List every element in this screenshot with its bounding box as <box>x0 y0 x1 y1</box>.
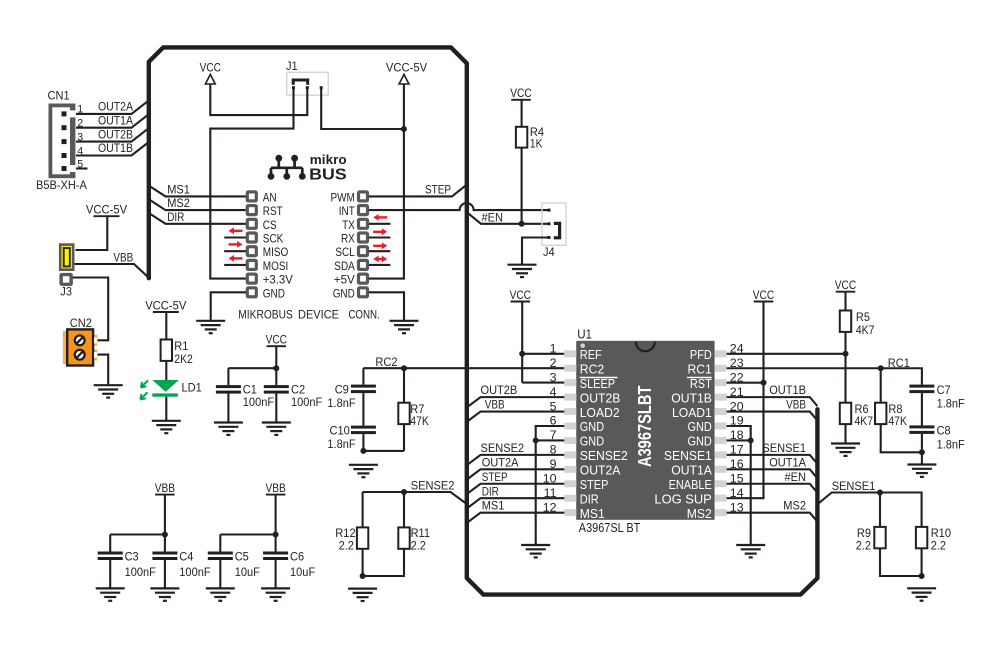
svg-text:LD1: LD1 <box>182 381 203 395</box>
svg-text:4K7: 4K7 <box>855 414 874 428</box>
svg-text:GND: GND <box>688 434 712 449</box>
svg-text:C5: C5 <box>235 549 249 563</box>
svg-text:DIR: DIR <box>580 491 599 506</box>
svg-text:CN1: CN1 <box>48 89 70 103</box>
svg-text:MS1: MS1 <box>580 506 605 521</box>
svg-text:VBB: VBB <box>155 481 175 495</box>
svg-text:A3967SLBT: A3967SLBT <box>635 386 655 468</box>
svg-text:47K: 47K <box>888 414 907 428</box>
svg-text:1.8nF: 1.8nF <box>327 437 355 451</box>
svg-text:J3: J3 <box>60 285 72 299</box>
svg-text:J4: J4 <box>543 245 555 259</box>
svg-text:GND: GND <box>688 419 712 434</box>
svg-text:SCL: SCL <box>335 245 355 259</box>
svg-text:MS2: MS2 <box>687 506 712 521</box>
svg-text:VCC-5V: VCC-5V <box>145 298 187 312</box>
svg-text:DIR: DIR <box>167 210 184 224</box>
svg-text:ENABLE: ENABLE <box>669 477 712 492</box>
svg-text:OUT2A: OUT2A <box>580 463 621 478</box>
svg-text:OUT1B: OUT1B <box>671 390 712 405</box>
svg-text:U1: U1 <box>577 327 592 341</box>
svg-text:2: 2 <box>550 356 557 370</box>
svg-text:47K: 47K <box>410 414 429 428</box>
svg-text:CN2: CN2 <box>70 316 92 330</box>
svg-text:GND: GND <box>263 286 285 300</box>
svg-text:BUS: BUS <box>309 167 347 184</box>
svg-text:MS2: MS2 <box>783 499 806 513</box>
svg-text:RC1: RC1 <box>688 361 712 376</box>
svg-text:100nF: 100nF <box>179 565 210 579</box>
svg-text:VCC-5V: VCC-5V <box>86 203 128 217</box>
svg-text:1: 1 <box>550 342 557 356</box>
svg-text:MIKROBUS: MIKROBUS <box>238 307 292 321</box>
svg-text:mikro: mikro <box>310 152 347 167</box>
svg-text:OUT1A: OUT1A <box>98 113 133 127</box>
svg-text:LOAD1: LOAD1 <box>672 405 712 420</box>
svg-text:C4: C4 <box>179 549 193 563</box>
svg-text:PFD: PFD <box>690 347 712 362</box>
svg-text:DEVICE: DEVICE <box>298 307 339 321</box>
svg-text:1.8nF: 1.8nF <box>937 397 965 411</box>
svg-text:10uF: 10uF <box>290 565 315 579</box>
svg-text:VCC: VCC <box>835 278 857 292</box>
svg-text:1.8nF: 1.8nF <box>937 437 965 451</box>
svg-text:OUT2B: OUT2B <box>481 383 518 397</box>
svg-text:SENSE1: SENSE1 <box>664 448 712 463</box>
svg-text:SDA: SDA <box>334 259 355 273</box>
svg-text:STEP: STEP <box>482 470 508 484</box>
svg-text:A3967SL BT: A3967SL BT <box>579 520 641 535</box>
svg-text:LOG SUP: LOG SUP <box>654 491 712 506</box>
svg-text:CONN.: CONN. <box>348 307 379 321</box>
svg-text:OUT2B: OUT2B <box>580 390 621 405</box>
svg-text:MS1: MS1 <box>482 499 505 513</box>
svg-text:VCC-5V: VCC-5V <box>386 61 428 75</box>
svg-text:VCC: VCC <box>753 288 775 302</box>
svg-text:RX: RX <box>341 232 355 246</box>
svg-text:R1: R1 <box>174 339 188 353</box>
svg-text:4K7: 4K7 <box>856 323 875 337</box>
svg-text:2.2: 2.2 <box>339 538 355 552</box>
svg-text:R5: R5 <box>856 310 870 324</box>
svg-text:VCC: VCC <box>200 61 222 75</box>
svg-text:C7: C7 <box>937 383 951 397</box>
svg-text:+5V: +5V <box>334 273 355 287</box>
svg-text:MOSI: MOSI <box>263 259 289 273</box>
svg-text:GND: GND <box>580 419 604 434</box>
svg-text:RST: RST <box>263 204 283 218</box>
svg-text:SENSE2: SENSE2 <box>411 479 455 493</box>
svg-text:OUT1B: OUT1B <box>769 383 806 397</box>
svg-text:AN: AN <box>263 190 277 204</box>
svg-text:TX: TX <box>342 218 355 232</box>
svg-text:SENSE1: SENSE1 <box>832 479 876 493</box>
svg-text:SENSE2: SENSE2 <box>580 448 628 463</box>
svg-text:VCC: VCC <box>266 333 288 347</box>
svg-text:2.2: 2.2 <box>856 539 872 553</box>
svg-text:PWM: PWM <box>331 190 355 204</box>
svg-text:RC2: RC2 <box>580 361 604 376</box>
svg-text:VBB: VBB <box>265 481 285 495</box>
svg-text:C9: C9 <box>335 382 349 396</box>
svg-text:MS2: MS2 <box>167 196 190 210</box>
svg-text:VCC: VCC <box>510 288 532 302</box>
svg-text:GND: GND <box>580 434 604 449</box>
svg-text:J1: J1 <box>286 59 298 73</box>
svg-text:2.2: 2.2 <box>931 539 947 553</box>
svg-text:2K2: 2K2 <box>174 352 193 366</box>
svg-text:DIR: DIR <box>482 484 499 498</box>
svg-text:100nF: 100nF <box>291 395 322 409</box>
svg-text:SCK: SCK <box>263 232 284 246</box>
svg-text:VBB: VBB <box>786 398 806 412</box>
svg-text:C3: C3 <box>125 549 139 563</box>
svg-text:OUT1B: OUT1B <box>98 141 133 155</box>
svg-text:CS: CS <box>263 218 277 232</box>
svg-text:VBB: VBB <box>113 250 133 264</box>
svg-text:OUT1A: OUT1A <box>769 455 806 469</box>
svg-text:#EN: #EN <box>785 470 807 484</box>
svg-text:STEP: STEP <box>425 182 451 196</box>
svg-text:SENSE1: SENSE1 <box>762 441 806 455</box>
svg-text:RC2: RC2 <box>375 355 397 369</box>
svg-text:LOAD2: LOAD2 <box>580 405 620 420</box>
svg-text:RC1: RC1 <box>888 356 910 370</box>
svg-text:#EN: #EN <box>482 211 504 225</box>
svg-text:OUT2A: OUT2A <box>482 455 519 469</box>
svg-text:100nF: 100nF <box>125 565 156 579</box>
svg-text:GND: GND <box>333 286 355 300</box>
svg-text:1.8nF: 1.8nF <box>327 396 355 410</box>
svg-text:10uF: 10uF <box>235 565 260 579</box>
svg-text:INT: INT <box>339 204 356 218</box>
svg-text:OUT2B: OUT2B <box>98 127 133 141</box>
svg-text:OUT2A: OUT2A <box>98 100 133 114</box>
svg-text:C10: C10 <box>330 423 351 437</box>
svg-text:2.2: 2.2 <box>411 538 427 552</box>
svg-text:MISO: MISO <box>263 245 289 259</box>
svg-text:OUT1A: OUT1A <box>671 463 712 478</box>
svg-text:+3.3V: +3.3V <box>263 273 293 287</box>
svg-text:MS1: MS1 <box>167 183 190 197</box>
svg-text:C8: C8 <box>937 424 951 438</box>
svg-text:3: 3 <box>550 370 557 384</box>
svg-text:VBB: VBB <box>485 398 505 412</box>
svg-text:B5B-XH-A: B5B-XH-A <box>36 178 87 192</box>
svg-text:REF: REF <box>580 347 602 362</box>
svg-text:STEP: STEP <box>580 477 609 492</box>
svg-text:1K: 1K <box>530 137 543 151</box>
svg-text:SENSE2: SENSE2 <box>481 441 525 455</box>
svg-text:C6: C6 <box>290 549 304 563</box>
svg-text:100nF: 100nF <box>243 395 274 409</box>
svg-text:VCC: VCC <box>510 86 532 100</box>
